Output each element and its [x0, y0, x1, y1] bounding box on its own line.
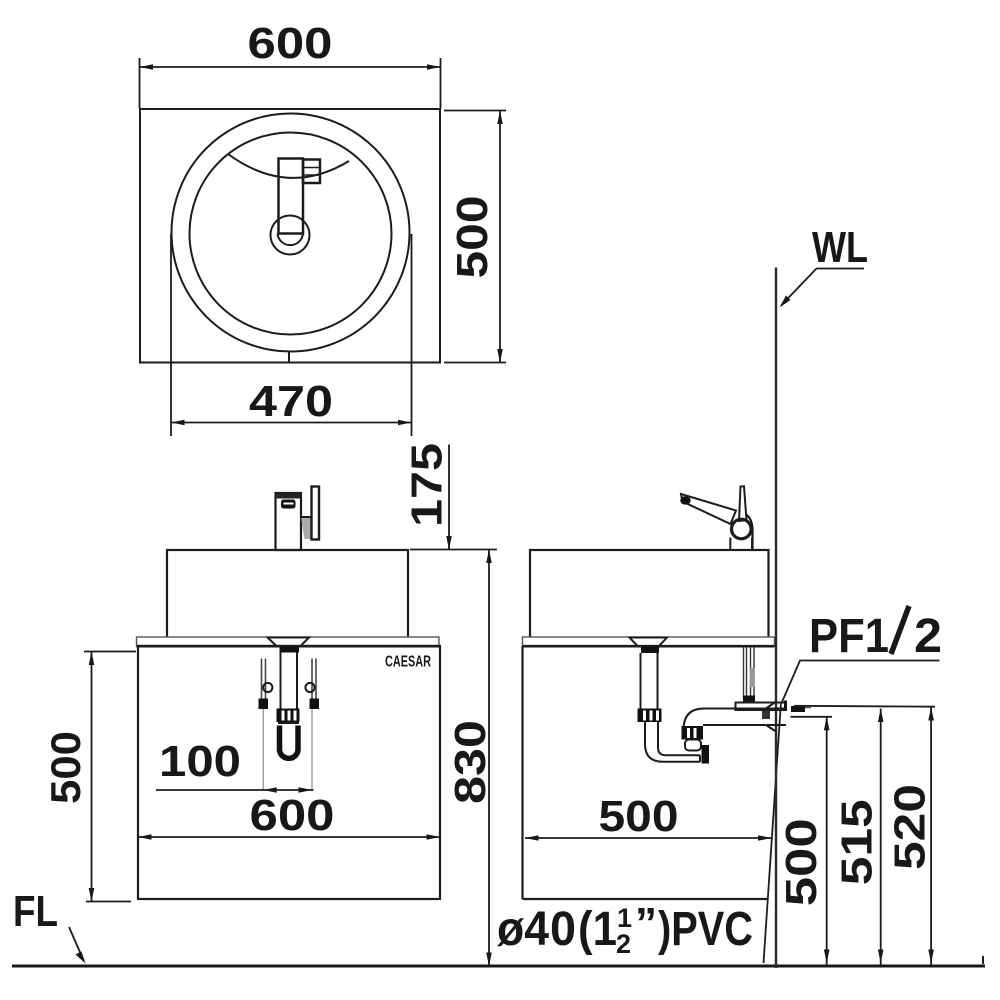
basin back chord arc	[228, 154, 349, 178]
floor line	[12, 965, 985, 968]
trap pipe down + elbow to horizontal	[645, 722, 700, 762]
svg-text:ø4: ø4	[497, 903, 549, 956]
svg-text:2: 2	[616, 929, 631, 959]
drain flange side	[630, 638, 668, 647]
svg-text:100: 100	[159, 737, 241, 786]
basin side rect	[530, 550, 769, 639]
svg-text:2: 2	[914, 610, 942, 663]
WL leader	[782, 269, 865, 306]
faucet front handle bar	[312, 487, 320, 540]
dim 175: dimension line	[448, 445, 450, 550]
trap nut side	[638, 709, 662, 723]
faucet plan inner semicircle	[278, 234, 304, 246]
faucet side spout	[681, 494, 736, 524]
trap inlet lower piece	[685, 740, 701, 751]
supply tubes under counter	[743, 647, 745, 698]
svg-text:470: 470	[249, 377, 333, 426]
dim 515/520 wall: extension line	[794, 705, 935, 708]
supply elbow and pipe to wall	[743, 696, 755, 703]
dim 515: dimension line	[880, 709, 882, 967]
dim 520: dimension line	[930, 707, 932, 966]
svg-text:600: 600	[248, 19, 333, 68]
dim 470: extension lines	[170, 234, 172, 436]
cabinet side bottom	[523, 898, 768, 900]
svg-text:”: ”	[635, 899, 657, 948]
dim 500 right of plan: extension lines	[444, 110, 506, 112]
dim 500 wall: dimension line	[826, 717, 828, 966]
dim 600 top: extension lines	[139, 58, 141, 109]
hanger bolt right	[311, 659, 313, 700]
dim 500 left: dimension line	[91, 652, 93, 902]
PF1/2 leader	[782, 661, 940, 703]
svg-text:830: 830	[446, 720, 495, 804]
trap inlet nut	[682, 726, 704, 740]
faucet plan base circle	[271, 216, 310, 255]
svg-text:520: 520	[886, 784, 935, 870]
svg-text:PF1: PF1	[809, 610, 889, 663]
dim 600 top: dimension line	[140, 66, 441, 68]
countertop front	[137, 637, 440, 646]
trap band front	[278, 722, 299, 724]
trap inlet stub	[702, 745, 710, 764]
dim 100: dimension line	[156, 789, 314, 791]
svg-text:CAESAR: CAESAR	[385, 654, 431, 671]
countertop side	[523, 637, 775, 646]
drain escutcheon at wall	[766, 702, 776, 709]
FL leader	[69, 927, 83, 959]
tailpipe front	[280, 653, 282, 709]
drain nut side	[641, 647, 659, 654]
cabinet side right slanted edge	[764, 702, 782, 963]
dim 830: dimension line	[488, 550, 490, 967]
svg-text:)PVC: )PVC	[658, 903, 753, 956]
dim 500 side width: dimension line	[525, 837, 772, 839]
dim 830 extension top	[410, 549, 497, 551]
svg-text:500: 500	[777, 818, 826, 906]
faucet plan body	[279, 159, 304, 234]
faucet side handle	[739, 486, 747, 521]
dim 500 left: extension lines	[84, 651, 136, 653]
hanger bolt left	[261, 659, 263, 700]
dim 470: dimension line	[171, 422, 412, 424]
trap nut front	[277, 709, 300, 723]
floor end tick	[982, 956, 984, 964]
svg-text:515: 515	[833, 799, 882, 885]
svg-text:175: 175	[403, 443, 452, 527]
tailpipe side	[640, 653, 642, 709]
faucet side ball	[732, 519, 752, 539]
supply socket in wall	[791, 706, 805, 712]
basin inner circle	[190, 133, 392, 335]
trap inlet elbow to wall pipe	[684, 709, 787, 731]
counter square	[140, 109, 440, 363]
drain nut front	[280, 647, 300, 653]
faucet front body	[276, 493, 302, 550]
svg-text:FL: FL	[13, 887, 58, 936]
svg-text:(1: (1	[578, 903, 617, 956]
svg-text:600: 600	[250, 791, 335, 840]
drain flange front	[268, 638, 310, 647]
dim 500 wall: extension line	[791, 716, 833, 718]
dim 500 right of plan: dimension line	[499, 111, 501, 363]
cabinet side left edge	[521, 646, 523, 899]
faucet side hose behind ball	[746, 514, 753, 549]
svg-text:WL: WL	[812, 223, 868, 272]
wall line WL	[775, 268, 777, 969]
basin front rect	[167, 550, 408, 639]
faucet side body	[729, 538, 731, 550]
svg-text:0: 0	[550, 903, 576, 956]
svg-text:500: 500	[448, 196, 497, 279]
svg-text:500: 500	[42, 731, 89, 804]
svg-text:500: 500	[599, 792, 679, 841]
faucet front link + shade	[301, 518, 312, 540]
faucet plan handle	[303, 160, 320, 184]
U trap front	[280, 726, 299, 759]
dim 600 front: dimension line	[138, 836, 440, 838]
tick circle bottom to square	[288, 352, 290, 363]
supply wall flange	[784, 701, 787, 711]
cabinet front	[138, 646, 440, 899]
faucet front aerator	[281, 500, 296, 509]
basin outer circle	[172, 114, 410, 352]
